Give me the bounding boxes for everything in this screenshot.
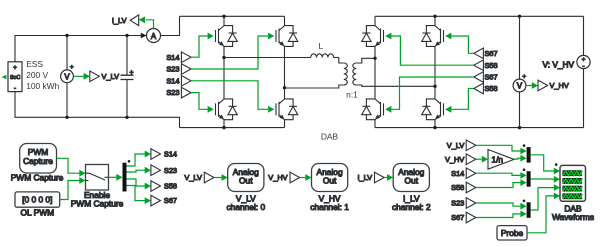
TEXTS bbox=[26, 41, 358, 142]
bridge2 leg2 wire bbox=[434, 16, 436, 127]
svg-text:V_LV: V_LV bbox=[102, 72, 120, 81]
svg-text:[0 0 0 0]: [0 0 0 0] bbox=[22, 195, 52, 205]
svg-text:Out: Out bbox=[405, 175, 419, 185]
tag I_LV source ao bbox=[357, 172, 384, 183]
svg-text:V_HV: V_HV bbox=[550, 81, 569, 90]
svg-text:+: + bbox=[522, 73, 526, 80]
svg-text:+: + bbox=[13, 64, 17, 71]
bridge2 top rail bbox=[375, 15, 584, 17]
tag V_LV sink bbox=[90, 71, 119, 82]
node bridge1 top leg1 bbox=[222, 15, 225, 18]
svg-text:1/n: 1/n bbox=[492, 155, 504, 165]
svg-text:-: - bbox=[582, 63, 584, 70]
transformer TR bbox=[344, 63, 357, 85]
wire secondary bottom bbox=[356, 85, 435, 86]
tag V_HV scope source bbox=[445, 154, 476, 165]
node bridge2 top vhv bbox=[518, 15, 521, 18]
svg-text:S23: S23 bbox=[166, 88, 179, 97]
tag S14 scope source bbox=[451, 168, 476, 179]
svg-text:channel: 2: channel: 2 bbox=[392, 202, 431, 212]
label DAB bbox=[321, 132, 339, 142]
wire S14 gate1 bbox=[191, 33, 214, 58]
svg-text:L: L bbox=[318, 41, 323, 51]
wire V_HV sensor branch bbox=[519, 16, 521, 127]
wire switch to mux bbox=[109, 174, 123, 181]
node bottom-rail C branch bbox=[125, 116, 128, 119]
inductor L bbox=[311, 54, 339, 58]
svg-text:S14: S14 bbox=[164, 150, 177, 159]
igbt Q6 top-right bbox=[422, 26, 444, 47]
node bottom-rail V branch bbox=[65, 116, 68, 119]
svg-text:V: V_HV: V: V_HV bbox=[542, 59, 574, 69]
wire I_LV signal bbox=[139, 16, 154, 28]
igbt Q7 bottom-left bbox=[362, 99, 384, 120]
svg-text:100 kWh: 100 kWh bbox=[26, 81, 59, 91]
wire mux3 to scope bbox=[531, 184, 560, 210]
tag S67 scope source bbox=[451, 212, 476, 223]
igbt Q1 top-left bbox=[216, 26, 238, 47]
tag S23 gate2 bbox=[166, 64, 191, 75]
wire V_LV sensor branch bbox=[66, 36, 68, 118]
wire s58 to mux2 bbox=[476, 179, 527, 187]
wire s67 to mux3 bbox=[476, 211, 527, 218]
wire mux1 to scope bbox=[531, 155, 560, 175]
label ESS values bbox=[26, 59, 59, 91]
svg-text:DAB: DAB bbox=[321, 132, 339, 142]
svg-text:S58: S58 bbox=[485, 84, 498, 93]
wire vhv to analog2 bbox=[300, 174, 312, 181]
svg-text:SoC: SoC bbox=[10, 75, 21, 81]
scope DAB Waveforms bbox=[552, 165, 594, 222]
wire pwmcapture to switch bbox=[57, 158, 86, 176]
svg-text:S58: S58 bbox=[164, 182, 177, 191]
ammeter I_LV arrow bbox=[141, 33, 147, 39]
svg-text:Waveforms: Waveforms bbox=[552, 212, 594, 222]
wire demux out1 bbox=[127, 151, 151, 166]
tag S67 gate7 bbox=[474, 72, 498, 83]
wire V_LV sensor signal bbox=[73, 73, 89, 80]
igbt Q3 bottom-left bbox=[216, 99, 238, 120]
node bridge2 top leg2 bbox=[433, 15, 436, 18]
node bridge2 bottom leg2 bbox=[433, 126, 436, 129]
tag S58 scope source bbox=[451, 182, 476, 193]
bridge1 leg2 wire bbox=[284, 16, 286, 127]
svg-text:200 V: 200 V bbox=[26, 70, 48, 80]
mux pwm demux bbox=[123, 160, 131, 192]
tag S67 out bbox=[151, 195, 177, 206]
svg-text:V: V bbox=[517, 82, 523, 91]
svg-text:PWM Capture: PWM Capture bbox=[11, 172, 64, 182]
capacitor C bbox=[121, 36, 134, 118]
wire vhv to gain bbox=[476, 156, 488, 163]
svg-text:V_LV: V_LV bbox=[447, 141, 465, 150]
wire V_HV sensor signal bbox=[526, 82, 538, 89]
wire demux out3 bbox=[127, 179, 151, 189]
wire left top rail bbox=[15, 16, 180, 62]
voltmeter V_HV sensor bbox=[513, 73, 526, 92]
svg-text:A: A bbox=[151, 32, 157, 41]
bridge1 top rail bbox=[180, 15, 285, 17]
wire probe to scope bbox=[527, 193, 560, 233]
voltmeter V_LV sensor bbox=[61, 64, 74, 83]
svg-text:S14: S14 bbox=[166, 76, 179, 85]
svg-text:S67: S67 bbox=[485, 49, 498, 58]
wire primary top bbox=[339, 58, 344, 64]
mux3 scope bbox=[523, 200, 531, 218]
wire demux out4 bbox=[127, 186, 151, 205]
mux1 scope bbox=[523, 144, 531, 162]
svg-text:Capture: Capture bbox=[23, 156, 53, 166]
wire s23 to mux3 bbox=[476, 203, 527, 210]
wire S58 gate8 bbox=[445, 89, 474, 113]
tag S23 gate3 bbox=[166, 87, 191, 98]
wire secondary top bbox=[356, 58, 375, 63]
tag S23 scope source bbox=[451, 198, 476, 209]
bridge1 leg1 wire bbox=[223, 16, 225, 127]
igbt Q4 bottom-right bbox=[276, 99, 298, 120]
igbt Q5 top-left bbox=[362, 26, 384, 47]
svg-text:-: - bbox=[14, 85, 16, 92]
svg-text:I_LV: I_LV bbox=[357, 173, 372, 182]
tag S58 gate5 bbox=[474, 60, 498, 71]
block Analog Out 2 bbox=[310, 164, 349, 213]
block Probe bbox=[497, 226, 527, 240]
svg-text:S23: S23 bbox=[164, 166, 177, 175]
tag I_LV sink bbox=[112, 15, 139, 26]
battery ESS bbox=[2, 62, 22, 92]
tag V_HV source ao bbox=[268, 172, 299, 183]
svg-text:Out: Out bbox=[323, 175, 337, 185]
BOTTOM-SECTION bbox=[11, 140, 594, 240]
wire S67 gate7 bbox=[385, 77, 474, 113]
node bridge2 leg2 mid bbox=[433, 85, 436, 88]
svg-text:I_LV: I_LV bbox=[112, 16, 127, 25]
svg-text:S58: S58 bbox=[451, 183, 464, 192]
switch Enable PWM Capture bbox=[71, 165, 124, 209]
wire mux2 to scope bbox=[531, 176, 560, 183]
svg-text:+: + bbox=[129, 70, 133, 77]
tag S14 gate1 bbox=[166, 52, 191, 63]
node top-rail V branch bbox=[65, 34, 68, 37]
svg-text:Out: Out bbox=[239, 175, 253, 185]
wire S14 gate4 bbox=[191, 81, 274, 113]
tag V_LV scope source bbox=[447, 140, 476, 151]
svg-text:V_LV: V_LV bbox=[184, 173, 202, 182]
svg-text:V_HV: V_HV bbox=[445, 155, 464, 164]
node bridge2 leg1 mid bbox=[373, 57, 376, 60]
node scope marker bbox=[555, 163, 558, 166]
tag S14 gate4 bbox=[166, 76, 191, 87]
svg-text:Probe: Probe bbox=[501, 228, 524, 238]
tag S14 out bbox=[151, 149, 177, 160]
gain 1/n bbox=[488, 150, 514, 170]
tag S58 gate8 bbox=[474, 83, 498, 94]
tag V_HV sink bbox=[538, 80, 569, 91]
wire primary bottom bbox=[285, 85, 344, 88]
block OL PWM constant bbox=[15, 192, 60, 218]
wire demux out2 bbox=[127, 167, 151, 174]
node bridge1 leg1 mid bbox=[222, 56, 225, 59]
tag S58 out bbox=[151, 181, 177, 192]
svg-text:S23: S23 bbox=[451, 199, 464, 208]
MAIN-CIRCUIT bbox=[2, 15, 591, 130]
bridge2 bottom rail bbox=[375, 127, 584, 129]
svg-text:S67: S67 bbox=[451, 213, 464, 222]
node top-rail C branch bbox=[125, 34, 128, 37]
wire olpwm to switch bbox=[60, 177, 86, 199]
block PWM Capture bbox=[11, 144, 64, 183]
wire S23 gate2 bbox=[191, 33, 274, 69]
svg-text:S67: S67 bbox=[485, 73, 498, 82]
igbt Q8 bottom-right bbox=[422, 99, 444, 120]
label L bbox=[318, 41, 323, 51]
label n:1 bbox=[346, 89, 358, 99]
ammeter A bbox=[147, 29, 161, 43]
svg-text:n:1: n:1 bbox=[346, 89, 358, 99]
mux2 scope bbox=[523, 168, 531, 186]
wire vlv to mux1 bbox=[476, 145, 527, 154]
wire bridge1 to inductor bbox=[224, 57, 311, 59]
tag S23 out bbox=[151, 165, 177, 176]
wire vlv to analog1 bbox=[214, 174, 228, 181]
block Analog Out 1 bbox=[226, 164, 265, 213]
bridge1 bottom rail bbox=[180, 127, 285, 129]
wire s14 to mux2 bbox=[476, 172, 527, 179]
svg-text:S23: S23 bbox=[166, 65, 179, 74]
wire ilv to analog3 bbox=[384, 174, 393, 181]
svg-text:channel: 1: channel: 1 bbox=[310, 202, 349, 212]
svg-text:OL PWM: OL PWM bbox=[20, 207, 54, 217]
svg-text:S14: S14 bbox=[451, 169, 464, 178]
node bridge1 bottom leg1 bbox=[222, 126, 225, 129]
wire S23 gate3 bbox=[191, 93, 214, 113]
wire S58 gate5 bbox=[385, 33, 474, 66]
wire left bottom rail bbox=[15, 92, 180, 128]
svg-text:channel: 0: channel: 0 bbox=[226, 202, 265, 212]
wire gain to mux1 bbox=[514, 155, 527, 162]
bridge2 leg1 wire bbox=[374, 16, 376, 127]
tag S67 gate6 bbox=[474, 48, 498, 59]
wire S67 gate6 bbox=[445, 33, 474, 54]
igbt Q2 top-right bbox=[276, 26, 298, 47]
svg-text:+: + bbox=[70, 64, 74, 71]
svg-text:ESS: ESS bbox=[26, 59, 43, 69]
block Analog Out 3 bbox=[392, 164, 431, 213]
svg-text:V: V bbox=[64, 73, 70, 82]
svg-text:S14: S14 bbox=[166, 53, 179, 62]
voltage source V_HV bbox=[542, 16, 590, 127]
node bridge2 bottom vhv bbox=[518, 126, 521, 129]
svg-text:S67: S67 bbox=[164, 196, 177, 205]
svg-text:V_HV: V_HV bbox=[268, 173, 287, 182]
node bridge1 leg2 mid bbox=[283, 86, 286, 89]
svg-text:PWM Capture: PWM Capture bbox=[71, 199, 124, 209]
svg-text:S58: S58 bbox=[485, 61, 498, 70]
tag V_LV source ao bbox=[184, 172, 214, 183]
